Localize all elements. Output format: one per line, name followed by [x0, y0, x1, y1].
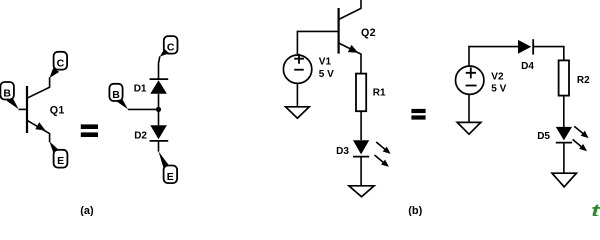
svg-text:B: B — [112, 89, 120, 101]
wire R2 to D5 — [563, 96, 565, 127]
svg-text:D2: D2 — [134, 130, 147, 141]
resistor R1 — [356, 74, 366, 112]
wire D5 to ground — [563, 143, 565, 174]
ground (below V1) — [286, 107, 310, 118]
wire B to junction — [128, 108, 159, 110]
svg-text:E: E — [167, 171, 174, 183]
svg-text:C: C — [167, 42, 175, 54]
svg-text:E: E — [57, 155, 64, 167]
node E (flag) — [158, 151, 177, 183]
svg-text:D5: D5 — [537, 131, 550, 142]
svg-text:D3: D3 — [336, 146, 349, 157]
ground (below D5) — [552, 173, 576, 187]
svg-text:R2: R2 — [577, 75, 590, 86]
resistor R2 — [559, 60, 569, 95]
voltage source V2 — [456, 66, 484, 94]
node B (flag) — [0, 82, 18, 109]
diode D2 — [150, 125, 169, 141]
svg-text:5 V: 5 V — [319, 69, 334, 80]
svg-text:D4: D4 — [521, 61, 534, 72]
ground (below V2) — [457, 122, 481, 134]
svg-text:B: B — [3, 88, 11, 100]
svg-text:(b): (b) — [408, 205, 422, 216]
node B (flag) — [109, 84, 128, 109]
diode D4 — [518, 39, 533, 54]
transistor Q1 — [27, 77, 50, 142]
wire D3 to ground — [360, 157, 362, 186]
wire R1 to D3 — [360, 111, 362, 140]
equals sign (a) — [81, 124, 98, 137]
wire D1 to D2 — [158, 94, 160, 125]
node C (flag) — [160, 36, 178, 57]
svg-text:C: C — [57, 57, 65, 69]
transistor Q2 — [339, 0, 361, 74]
svg-text:R1: R1 — [373, 87, 386, 98]
wire D4 to R2 — [533, 47, 564, 61]
junction dot — [156, 107, 161, 112]
svg-text:Q1: Q1 — [50, 105, 65, 117]
wire C to D1 — [159, 56, 160, 79]
wire V1 to ground — [296, 84, 298, 107]
wire D2 to E — [158, 141, 160, 152]
wire B to Q1 base — [19, 108, 27, 110]
LED D5 — [556, 126, 589, 151]
wire V1 to Q2 base — [297, 31, 337, 54]
node C (flag) — [50, 52, 68, 78]
svg-text:V1: V1 — [319, 57, 332, 68]
svg-text:V2: V2 — [491, 71, 504, 82]
svg-text:D1: D1 — [134, 83, 147, 94]
ground (below D3) — [349, 186, 374, 197]
svg-text:t: t — [591, 201, 600, 216]
equals sign (b) — [411, 109, 425, 120]
wire V2 to D4 — [469, 47, 518, 66]
voltage source V1 — [283, 54, 311, 83]
node E (flag) — [49, 141, 67, 167]
svg-text:(a): (a) — [80, 205, 94, 216]
svg-text:Q2: Q2 — [361, 27, 376, 39]
svg-text:5 V: 5 V — [491, 83, 506, 94]
diode D1 — [150, 79, 169, 94]
wire V2 to ground — [468, 95, 470, 123]
LED D3 — [353, 140, 391, 167]
